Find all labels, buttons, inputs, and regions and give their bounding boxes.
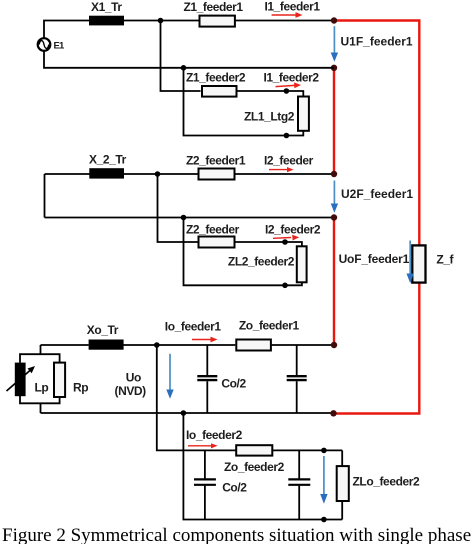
svg-text:Co/2: Co/2 bbox=[221, 377, 246, 391]
wire zero-seq left drop top bbox=[40, 345, 42, 354]
inductor Lp bbox=[15, 363, 26, 397]
load ZLo_feeder2 bbox=[337, 466, 349, 501]
current arrow Io_feeder2 bbox=[188, 443, 218, 448]
wire zero feeder2 return bbox=[183, 413, 342, 520]
svg-text:ZLo_feeder2: ZLo_feeder2 bbox=[353, 475, 420, 489]
reactance Xo_Tr bbox=[89, 340, 124, 350]
svg-text:Co/2: Co/2 bbox=[222, 481, 247, 495]
current arrow I2_feeder bbox=[269, 167, 294, 172]
node ZL1 bottom bbox=[284, 133, 290, 139]
node junction B bbox=[155, 171, 161, 177]
svg-text:Z1_feeder1: Z1_feeder1 bbox=[184, 0, 244, 14]
wire zero feeder2 branch bbox=[157, 345, 236, 450]
svg-text:I1_feeder2: I1_feeder2 bbox=[264, 71, 320, 85]
node zero bus junction bbox=[181, 410, 187, 416]
current arrow I1_feeder1 bbox=[272, 12, 303, 18]
voltage arrow UoF_feeder1 bbox=[407, 241, 414, 284]
node zero bus end bbox=[330, 410, 336, 416]
svg-text:Zo_feeder1: Zo_feeder1 bbox=[239, 319, 300, 333]
svg-text:Z1_feeder2: Z1_feeder2 bbox=[186, 71, 246, 85]
fault impedance Z_f bbox=[412, 245, 425, 282]
svg-text:I1_feeder1: I1_feeder1 bbox=[265, 0, 321, 14]
wire branch A to Z1_feeder2 bbox=[161, 21, 201, 92]
wire Z1_feeder1 to node bbox=[235, 20, 334, 22]
impedance Z2_feeder1 bbox=[199, 169, 235, 180]
svg-text:I2_feeder: I2_feeder bbox=[264, 154, 314, 168]
wire zero-seq left drop bottom bbox=[40, 403, 42, 413]
wire Lp Rp loop bbox=[20, 354, 60, 403]
load ZL2_feeder2 bbox=[297, 246, 307, 282]
node junction A bbox=[158, 18, 164, 24]
svg-text:I2_feeder2: I2_feeder2 bbox=[265, 223, 321, 237]
svg-text:Zo_feeder2: Zo_feeder2 bbox=[224, 460, 285, 474]
red link neg-zero net bbox=[333, 218, 335, 346]
wire zero top bbox=[41, 344, 89, 346]
svg-text:E1: E1 bbox=[54, 40, 66, 51]
node junction return feeder2 bbox=[181, 65, 187, 71]
impedance Z2_feeder bbox=[199, 237, 235, 248]
wire Z1_feeder2 to ZL1_Ltg2 bbox=[237, 91, 304, 97]
wire Z2_feeder to ZL2_feeder2 bbox=[235, 242, 302, 246]
resistor Rp bbox=[54, 363, 65, 397]
reactance X1_Tr bbox=[89, 16, 124, 26]
reactance X_2_Tr bbox=[89, 168, 124, 178]
wire ZL1_Ltg2 return bbox=[184, 68, 304, 136]
current arrow I2_feeder2 bbox=[273, 235, 299, 241]
wire X_2_Tr to Z2_feeder1 bbox=[123, 173, 199, 175]
node pos-neutral bbox=[331, 65, 337, 71]
current arrow I1_feeder2 bbox=[276, 82, 302, 88]
wire branch B to Z2_feeder bbox=[158, 174, 199, 242]
svg-text:X_2_Tr: X_2_Tr bbox=[89, 153, 127, 167]
node ZL1 top bbox=[284, 88, 290, 94]
wire E1 bottom return bbox=[44, 51, 334, 68]
wire X1_Tr to Z1_feeder1 bbox=[124, 20, 200, 22]
svg-text:X1_Tr: X1_Tr bbox=[91, 0, 122, 14]
svg-text:ZL2_feeder2: ZL2_feeder2 bbox=[228, 255, 295, 269]
load ZL1_Ltg2 bbox=[298, 97, 309, 131]
voltage arrow U1F_feeder1 bbox=[331, 26, 338, 62]
voltage arrow ZLo bbox=[320, 456, 327, 504]
svg-text:Figure 2 Symmetrical component: Figure 2 Symmetrical components situatio… bbox=[2, 525, 471, 544]
capacitor Co/2 feeder1 bbox=[197, 345, 217, 413]
svg-text:UoF_feeder1: UoF_feeder1 bbox=[339, 252, 410, 266]
svg-text:Z2_feeder1: Z2_feeder1 bbox=[186, 154, 246, 168]
red fault loop wire bbox=[334, 21, 420, 414]
svg-text:Z2_feeder: Z2_feeder bbox=[186, 223, 240, 237]
capacitor feeder2 line-end bbox=[288, 450, 310, 519]
wire ZLo legs bbox=[341, 450, 343, 519]
impedance Zo_feeder1 bbox=[236, 340, 271, 351]
svg-text:(NVD): (NVD) bbox=[115, 384, 147, 398]
source E1 bbox=[38, 38, 51, 51]
wire Z2_feeder1 to node bbox=[235, 173, 335, 175]
node neg top bbox=[331, 171, 337, 177]
capacitor Co/2 feeder2 bbox=[194, 450, 216, 519]
voltage arrow Uo NVD bbox=[166, 354, 173, 399]
impedance Zo_feeder2 bbox=[236, 445, 272, 455]
node junction neg return bbox=[181, 215, 187, 221]
svg-text:Z_f: Z_f bbox=[436, 253, 454, 267]
svg-text:U1F_feeder1: U1F_feeder1 bbox=[341, 35, 413, 49]
voltage arrow U2F_feeder1 bbox=[331, 181, 338, 213]
node ZL2 bottom bbox=[282, 283, 288, 289]
svg-text:U2F_feeder1: U2F_feeder1 bbox=[341, 187, 413, 201]
node ZL2 top bbox=[282, 239, 288, 245]
capacitor feeder1 line-end bbox=[287, 345, 307, 413]
node fault top bbox=[331, 17, 337, 23]
svg-text:Uo: Uo bbox=[126, 371, 141, 385]
svg-text:Xo_Tr: Xo_Tr bbox=[87, 323, 119, 337]
wire neg-seq left loop bbox=[45, 174, 335, 218]
wire E1 top to X1_Tr bbox=[44, 21, 90, 39]
wire zero bus bottom bbox=[41, 412, 334, 414]
arrow Lp variable bbox=[7, 366, 36, 391]
red link pos-neg net bbox=[333, 68, 335, 174]
node zero top right bbox=[331, 342, 337, 348]
svg-text:Lp: Lp bbox=[35, 381, 49, 395]
wire ZL2_feeder2 return bbox=[184, 218, 302, 286]
svg-text:ZL1_Ltg2: ZL1_Ltg2 bbox=[244, 110, 295, 124]
node neg-neutral bbox=[331, 214, 337, 220]
node zero junction bbox=[154, 342, 160, 348]
svg-text:Io_feeder2: Io_feeder2 bbox=[186, 428, 243, 442]
impedance Z1_feeder1 bbox=[200, 16, 235, 27]
wire Zo_feeder2 to ZLo bbox=[272, 449, 342, 451]
current arrow Io_feeder1 bbox=[192, 337, 218, 343]
wire Zo_feeder1 to node bbox=[272, 344, 334, 346]
svg-text:Io_feeder1: Io_feeder1 bbox=[165, 320, 222, 334]
node ZLo bottom bbox=[321, 517, 327, 523]
node ZLo top bbox=[321, 448, 327, 454]
impedance Z1_feeder2 bbox=[202, 86, 237, 97]
svg-text:Rp: Rp bbox=[73, 381, 88, 395]
wire Xo_Tr to Zo_feeder1 bbox=[123, 344, 235, 346]
